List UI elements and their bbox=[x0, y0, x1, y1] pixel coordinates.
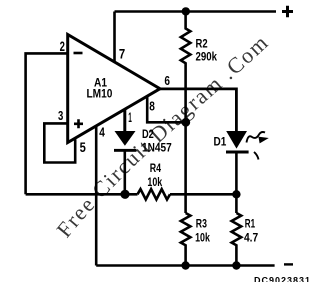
svg-text:D1: D1 bbox=[214, 137, 227, 149]
diode D2 symbol bbox=[114, 131, 137, 152]
junction node pin8 / R2-R3 bbox=[181, 118, 190, 127]
svg-text:LM10: LM10 bbox=[87, 89, 113, 101]
junction node R1 bottom rail bbox=[232, 261, 240, 269]
LED D1 symbol bbox=[226, 131, 249, 154]
svg-text:3: 3 bbox=[58, 108, 63, 123]
svg-text:R3: R3 bbox=[196, 219, 207, 231]
wire D2 cathode to node bbox=[124, 150, 127, 194]
wire pin 7 drop bbox=[113, 12, 116, 62]
op-amp minus input symbol bbox=[74, 52, 83, 55]
minus terminal symbol bbox=[284, 263, 293, 265]
junction node D2 / R4 / pin2 loop bbox=[120, 190, 129, 199]
svg-text:8: 8 bbox=[149, 99, 155, 113]
wire pin 2 bbox=[26, 53, 68, 194]
resistor R3 body bbox=[181, 213, 191, 266]
svg-text:5: 5 bbox=[80, 139, 86, 155]
svg-text:A1: A1 bbox=[94, 77, 108, 89]
wire bottom feedback row left bbox=[26, 193, 138, 196]
wire R4 right to D1 cathode node bbox=[170, 193, 236, 196]
wire bottom rail bbox=[96, 264, 274, 267]
op-amp A1 triangle bbox=[68, 35, 160, 143]
op-amp plus input symbol bbox=[74, 119, 83, 128]
svg-text:DC9023831: DC9023831 bbox=[254, 276, 311, 282]
svg-text:R2: R2 bbox=[196, 38, 208, 50]
svg-text:6: 6 bbox=[164, 73, 170, 88]
svg-text:1N457: 1N457 bbox=[142, 142, 172, 154]
wire R2 bottom to R3 bbox=[184, 122, 187, 213]
svg-text:4: 4 bbox=[99, 125, 105, 139]
plus terminal symbol bbox=[282, 6, 293, 17]
junction node R4 / D1 / R1 bbox=[232, 190, 240, 198]
resistor R4 body bbox=[138, 189, 171, 199]
wire pin 4 to bottom rail bbox=[95, 126, 98, 266]
wire D1 cathode to R1 bbox=[235, 152, 238, 213]
svg-text:4.7: 4.7 bbox=[244, 233, 258, 245]
svg-text:R1: R1 bbox=[245, 219, 256, 231]
svg-text:10k: 10k bbox=[147, 177, 162, 189]
LED D1 light arrow bbox=[247, 132, 268, 143]
wire pin 8 bbox=[147, 97, 185, 123]
svg-text:D2: D2 bbox=[142, 129, 154, 141]
wire top rail bbox=[115, 10, 277, 13]
svg-text:290k: 290k bbox=[196, 51, 218, 63]
svg-text:7: 7 bbox=[119, 45, 125, 61]
wire pin 3 and feedback box bbox=[44, 123, 75, 162]
svg-text:R4: R4 bbox=[150, 163, 162, 175]
junction node R3 bottom rail bbox=[181, 261, 189, 269]
wire pin 6 output to D1 bbox=[160, 89, 236, 132]
wire pin 1 stub bbox=[123, 110, 126, 133]
resistor R1 body bbox=[232, 213, 242, 266]
LED D1 light arrow 2 bbox=[254, 152, 259, 160]
resistor R2 body bbox=[181, 12, 191, 123]
svg-text:10k: 10k bbox=[195, 232, 210, 244]
svg-text:2: 2 bbox=[60, 38, 65, 54]
svg-text:1: 1 bbox=[128, 109, 132, 125]
junction node top rail / R2 bbox=[182, 7, 190, 15]
